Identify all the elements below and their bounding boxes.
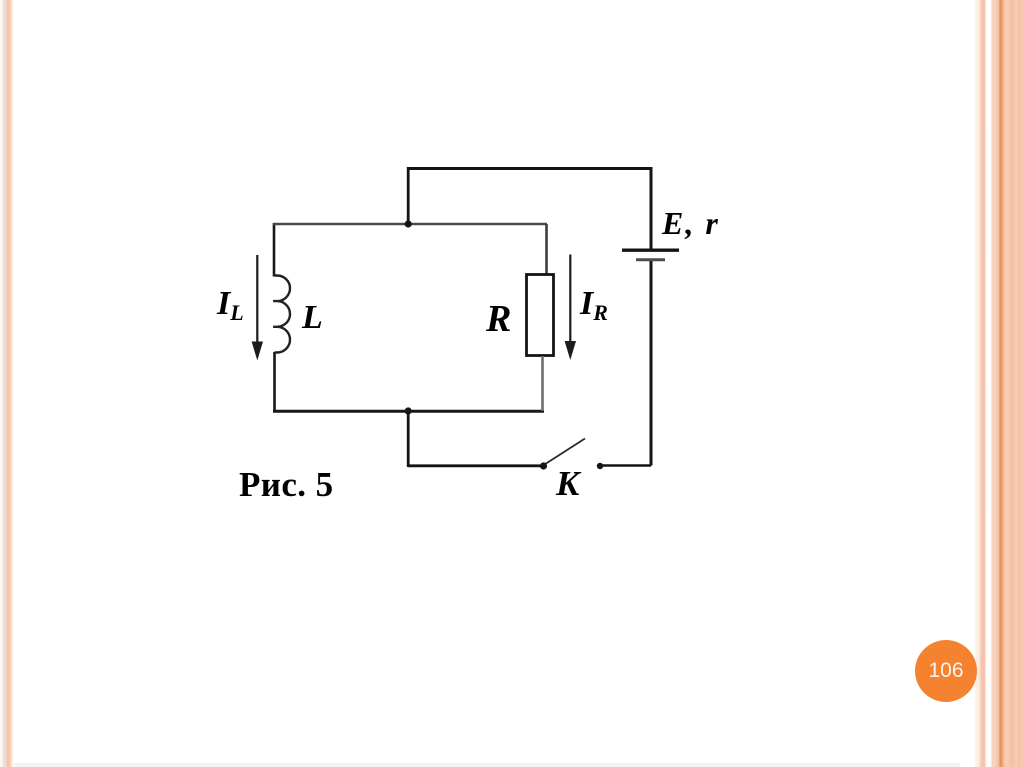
wire: outer top horizontal xyxy=(407,167,651,170)
svg-text:IL: IL xyxy=(216,285,244,325)
wire: inner bottom horizontal xyxy=(273,410,544,413)
switch K blade xyxy=(545,439,586,465)
wire: outer right vertical lower (battery to switch) xyxy=(650,261,653,466)
wire: inner top horizontal xyxy=(273,223,547,226)
wire: vertical connector bottom (junction to switch wire) xyxy=(407,411,410,467)
svg-text:IR: IR xyxy=(579,285,608,325)
junction node bottom xyxy=(405,407,412,414)
svg-text:E, r: E, r xyxy=(661,205,720,241)
inductor L coil xyxy=(273,275,290,352)
wire: inner left vertical upper (above inductor) xyxy=(273,223,276,277)
svg-text:Рис. 5: Рис. 5 xyxy=(239,465,333,504)
current arrow I_L xyxy=(256,255,258,343)
left decorative stripe xyxy=(0,0,14,767)
wire: switch bottom left segment xyxy=(408,464,544,467)
wire: inner left vertical lower (below inductor) xyxy=(273,352,276,412)
wire: inner right vertical lower (below resistor) xyxy=(541,356,544,411)
resistor R body xyxy=(527,275,554,356)
wire: switch right segment xyxy=(601,464,651,467)
wire: outer right vertical upper (to battery) xyxy=(650,167,653,250)
wire: inner right vertical upper (to resistor) xyxy=(545,224,548,275)
page number badge 106 xyxy=(915,640,977,702)
right decorative stripe band xyxy=(960,0,1024,767)
battery E,r short plate xyxy=(636,258,665,261)
switch K left contact dot xyxy=(540,462,547,469)
switch K right contact dot xyxy=(597,463,603,469)
junction node top xyxy=(405,220,412,227)
svg-text:L: L xyxy=(301,299,323,336)
svg-text:R: R xyxy=(485,298,511,340)
wire: vertical connector top (outer top to junction) xyxy=(407,167,410,224)
current arrow I_R xyxy=(569,255,571,344)
faint bottom edge band xyxy=(0,763,1024,767)
svg-text:K: K xyxy=(555,464,582,503)
battery E,r long plate xyxy=(622,248,679,251)
